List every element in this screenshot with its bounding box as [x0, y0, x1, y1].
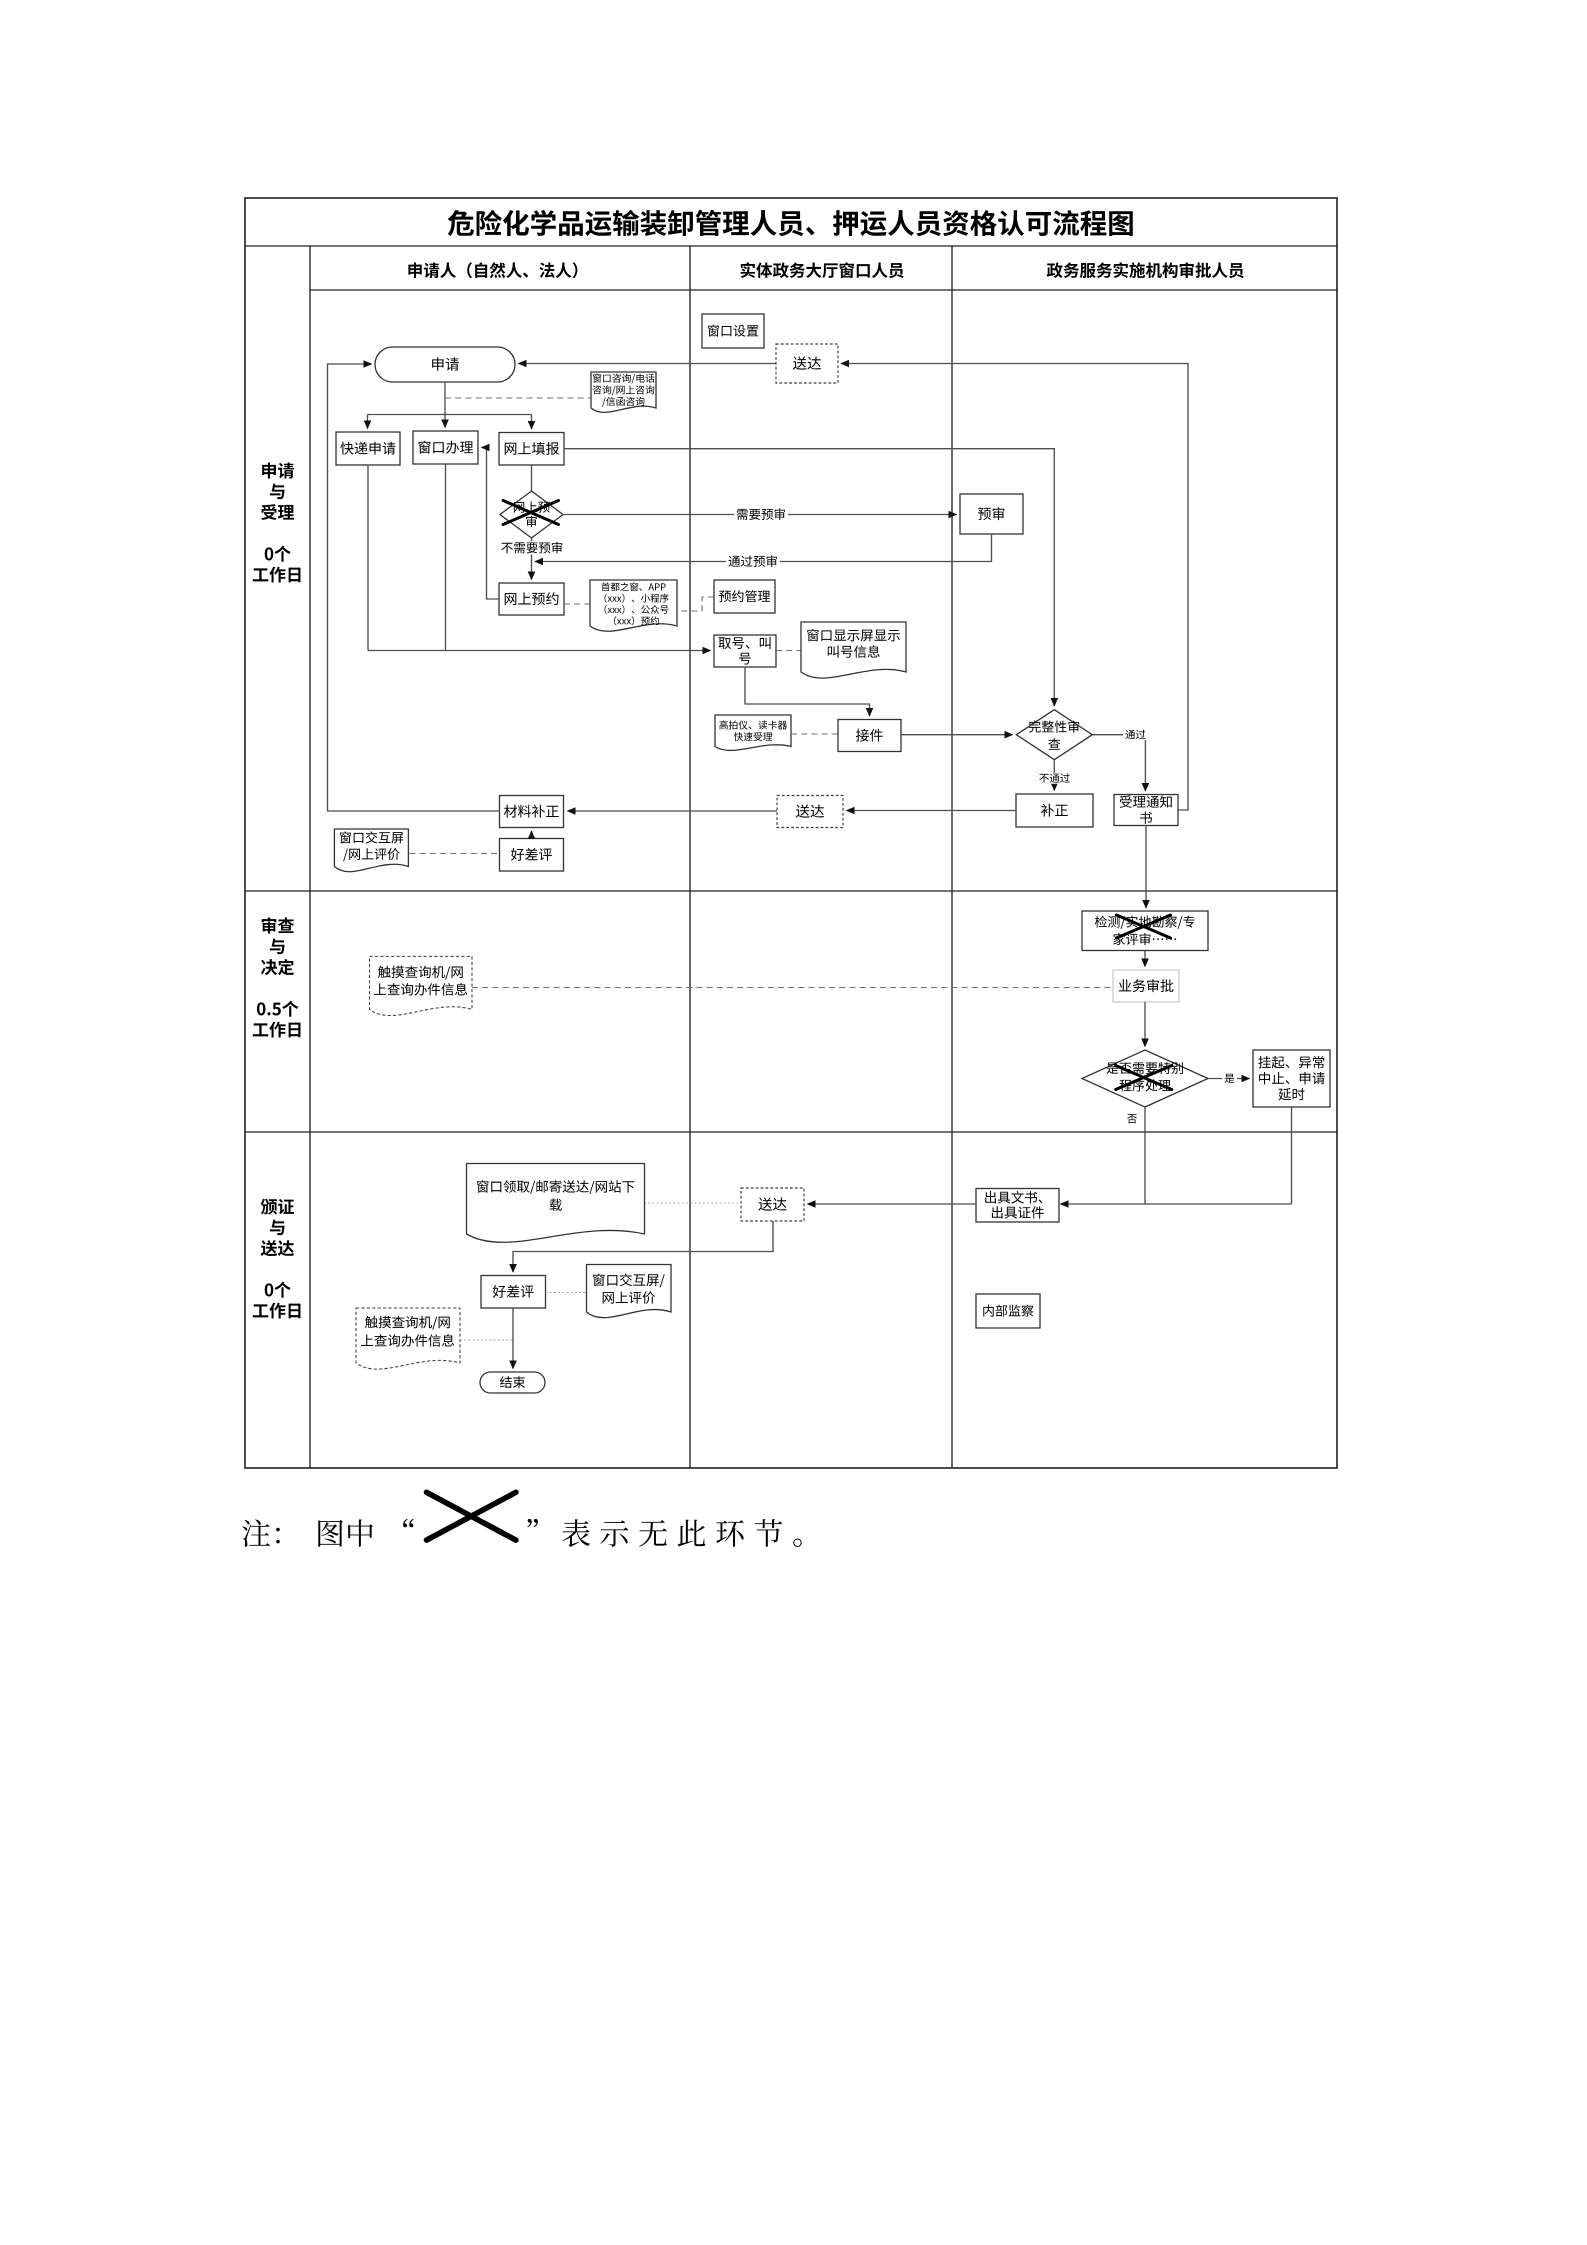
label: 通过预审 — [726, 555, 780, 568]
dashed wire: 取号 to display doc — [776, 650, 801, 652]
dashed document: 触摸查询机/网上查询办件信息 (1) — [370, 956, 473, 1015]
label: 通过 — [1123, 729, 1148, 740]
box: 取号、叫号 — [714, 635, 776, 667]
arrow: branch to 窗口办理 — [444, 415, 446, 428]
label: 否 — [1127, 1114, 1137, 1123]
row label: review & decide, 0.5 working days — [262, 917, 294, 933]
row label: issue & deliver, 0 working days — [261, 1199, 294, 1215]
arrow: 需要预审 to 预审 — [563, 514, 957, 516]
label: 是 — [1222, 1073, 1237, 1084]
diamond: 完整性审查 — [1016, 710, 1092, 760]
arrow: 送达 to 申请 — [519, 363, 777, 365]
title — [448, 210, 1133, 236]
arrow: 受理通知书 loop into 送达 right — [841, 364, 1188, 811]
arrow: into 出具文书 — [1061, 1203, 1292, 1205]
note text: 表示无此环节。 — [562, 1519, 802, 1547]
arrow: 受理通知书 down to 检测 — [1145, 825, 1147, 908]
arrow: branch to 网上填报 — [531, 415, 533, 430]
box: 补正 — [1016, 794, 1093, 827]
note open quote — [403, 1519, 414, 1527]
document: 窗口咨询/电话咨询/网上咨询/信函咨询 — [591, 372, 656, 412]
diamond: 是否需要特别程序处理 (crossed out) — [1082, 1050, 1208, 1107]
stadium: 申请 — [375, 347, 515, 382]
label: 不通过 — [1037, 773, 1073, 784]
arrow: branch to 快递申请 — [367, 415, 369, 429]
document: 首都之窗 APP booking channels — [590, 580, 677, 631]
wire: 否 down — [1144, 1107, 1146, 1204]
document: 窗口显示屏显示叫号信息 — [801, 622, 906, 678]
wire: 快递申请 down — [367, 465, 369, 651]
box: 预审 — [960, 494, 1023, 534]
arrow: 补正 to 送达2 — [847, 810, 1017, 812]
arrow: 业务审批 down to special-procedure diamond — [1144, 1002, 1146, 1047]
label: 需要预审 — [734, 508, 788, 521]
note X symbol — [427, 1492, 516, 1540]
dashed wire: 交互屏 doc to 好差评 — [410, 853, 500, 855]
long dashed wire: 触摸查询机 doc to 业务审批 — [472, 987, 1113, 989]
wire: 通过 to 受理通知书 — [1092, 735, 1145, 791]
box: 窗口办理 — [413, 431, 478, 464]
table outer border — [245, 198, 1337, 1468]
section divider 2 (review/issue) — [245, 1131, 1337, 1133]
arrow: 好差评2 down to 结束 — [512, 1308, 514, 1369]
box: 网上填报 — [499, 433, 564, 466]
box: 受理通知书 — [1114, 795, 1178, 826]
wire: 网上填报 right to completeness check — [564, 449, 1054, 706]
box: 检测/实地勘察/专家评审 (crossed out) — [1082, 911, 1208, 951]
arrow: 送达2 to 材料补正 — [568, 810, 778, 812]
arrow: into 取号、叫号 — [368, 650, 711, 652]
arrow: 检测 down to 业务审批 — [1144, 951, 1146, 967]
dashed wire: booking doc to 预约管理 — [677, 597, 714, 611]
box: 材料补正 — [500, 796, 564, 828]
dashed wire: 申请 to consult doc — [445, 397, 591, 399]
lane divider 1-2 — [689, 246, 691, 1468]
lane header 2 — [741, 262, 904, 278]
document: 窗口交互屏/网上评价 (1) — [334, 829, 408, 872]
dashed box: 送达 (top) — [776, 344, 838, 383]
wire: 送达3 elbow to 好差评2 — [513, 1221, 773, 1272]
label: 不需要预审 — [499, 542, 566, 555]
arrow: 材料补正 loop to 申请 — [328, 364, 500, 811]
lane header 3 — [1047, 262, 1244, 278]
dotted wire: 领取 doc to 送达3 — [644, 1202, 741, 1204]
box: 挂起、异常中止、申请延时 — [1253, 1050, 1330, 1107]
dashed wire: 网上预约 to booking doc — [564, 603, 590, 605]
arrow: 是 to 挂起 — [1208, 1078, 1250, 1080]
stadium: 结束 — [480, 1372, 545, 1393]
box: 网上预约 — [499, 583, 564, 615]
box: 好差评 (2) — [481, 1276, 546, 1309]
header row divider — [310, 289, 1337, 291]
arrow: 接件 to 完整性审查 — [901, 734, 1013, 736]
document: 窗口领取/邮寄送达/网站下载 — [467, 1164, 645, 1243]
note text: 图中 — [318, 1519, 373, 1546]
dashed document: 触摸查询机/网上查询办件信息 (2) — [356, 1308, 460, 1369]
box: 接件 — [838, 720, 901, 752]
wire: 申请 down to branch — [444, 382, 446, 415]
arrow: 好差评 up to 材料补正 — [531, 831, 533, 839]
box: 预约管理 — [714, 580, 775, 613]
document: 高拍仪、读卡器快速受理 — [715, 715, 791, 750]
box: 出具文书、出具证件 — [976, 1189, 1059, 1223]
wire: branch bar — [368, 414, 532, 416]
note text: 注： — [242, 1519, 280, 1546]
arrow: diamond down to 网上预约 — [531, 538, 533, 580]
dotted wire: 触摸查询机2 to wire — [460, 1339, 513, 1341]
dashed box: 送达 (middle) — [777, 796, 843, 828]
dashed box: 送达 (bottom) — [741, 1188, 804, 1221]
wire: 挂起 down — [1291, 1107, 1293, 1204]
section divider 1 (apply/review) — [245, 890, 1337, 892]
box: 好差评 (1) — [500, 839, 564, 872]
note close quote — [527, 1519, 538, 1527]
box: 快递申请 — [336, 432, 400, 465]
wire: 窗口办理 down — [445, 464, 447, 651]
wire: 预审 down-left 通过预审 — [535, 534, 992, 562]
dotted wire: 好差评2 to 交互屏 doc — [546, 1292, 587, 1294]
dashed wire: 高拍仪 doc to 接件 — [791, 733, 838, 735]
arrow: 取号 to 接件 — [745, 667, 870, 716]
arrow: 不通过 to 补正 — [1053, 760, 1055, 791]
lane divider 2-3 — [951, 246, 953, 1468]
diamond: 网上预审 (crossed out) — [500, 491, 563, 538]
wire: 网上填报 down to diamond — [531, 465, 533, 491]
title row divider — [245, 245, 1337, 247]
lane header 1 — [408, 262, 577, 278]
box: 内部监察 — [976, 1294, 1040, 1328]
box: 窗口设置 — [702, 314, 764, 348]
box: 业务审批 (light border) — [1113, 970, 1179, 1002]
document: 窗口交互屏/网上评价 (2) — [587, 1265, 672, 1318]
row label: apply & accept, 0 working days — [262, 463, 294, 479]
arrow: 出具文书 to 送达3 — [808, 1203, 977, 1205]
label column divider — [309, 246, 311, 1468]
arrow: 网上预约 loop to 窗口办理 — [482, 448, 500, 600]
